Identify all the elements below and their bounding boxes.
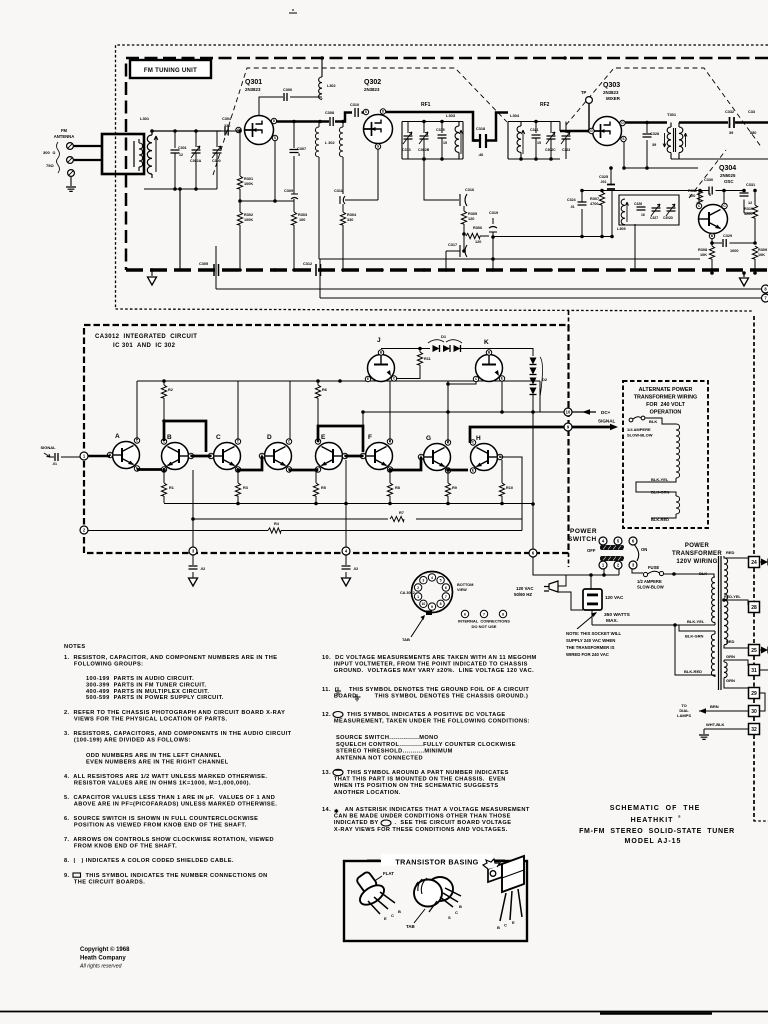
wire thick B base to C base	[191, 455, 211, 458]
antenna terminal screw 2	[67, 157, 74, 164]
transistor K	[476, 355, 503, 382]
svg-text:All rights reserved: All rights reserved	[79, 964, 123, 970]
svg-text:LAMPS: LAMPS	[677, 713, 691, 718]
svg-text:R305: R305	[468, 212, 477, 216]
junction dots q304 bottom	[710, 271, 714, 275]
svg-text:C331: C331	[746, 183, 755, 187]
svg-text:C: C	[455, 910, 458, 915]
svg-text:RESISTOR VALUES ARE IN OHMS 1K: RESISTOR VALUES ARE IN OHMS 1K=1000, M=1…	[64, 780, 251, 786]
svg-text:.001: .001	[600, 180, 607, 184]
CA3012 dashed box	[84, 325, 569, 553]
alternate wiring top	[645, 418, 676, 424]
svg-text:3. RESISTORS, CAPACITORS, AND: 3. RESISTORS, CAPACITORS, AND COMPONENTS…	[64, 731, 292, 737]
svg-text:R311: R311	[688, 189, 697, 193]
L301 arrow	[154, 136, 158, 172]
svg-text:F: F	[368, 434, 372, 441]
resistor R8	[389, 470, 391, 483]
svg-text:2N3823: 2N3823	[603, 90, 619, 95]
terminal 24	[749, 557, 760, 568]
svg-text:SIGNAL: SIGNAL	[40, 445, 56, 450]
junction dots antenna tank	[150, 129, 154, 133]
Q304 pin C2	[722, 203, 727, 208]
wire plug to circuit	[558, 575, 592, 625]
svg-text:R9: R9	[452, 486, 457, 490]
svg-text:C313: C313	[402, 148, 411, 152]
resistor R3	[237, 470, 239, 483]
svg-text:POSITION AS VIEWED FROM KNOB E: POSITION AS VIEWED FROM KNOB END OF THE …	[64, 822, 247, 828]
svg-text:28: 28	[751, 605, 757, 611]
power section left dashed edge	[568, 311, 570, 567]
node 7 right edge	[762, 294, 768, 302]
svg-text:R2: R2	[168, 388, 173, 392]
switch wafer upper	[600, 545, 624, 550]
wire antenna to transformer	[74, 146, 102, 160]
svg-text:C316: C316	[465, 188, 474, 192]
transistor B base pin	[188, 453, 193, 458]
wire T301 bottom rail	[671, 158, 768, 160]
svg-text:THE CIRCUIT BOARDS.: THE CIRCUIT BOARDS.	[64, 879, 145, 885]
svg-text:120: 120	[689, 194, 695, 198]
wire C325 top	[610, 168, 612, 179]
svg-text:SLOW-BLOW: SLOW-BLOW	[637, 585, 664, 590]
svg-text:R309: R309	[758, 248, 767, 252]
svg-text:C302A: C302A	[190, 159, 202, 163]
inductor L305	[621, 199, 625, 225]
resistor R1	[163, 470, 165, 483]
svg-text:B: B	[497, 925, 500, 930]
svg-text:WIRED FOR 240 VAC: WIRED FOR 240 VAC	[566, 652, 609, 657]
wire J emitter to bus	[340, 380, 366, 382]
svg-text:L301: L301	[140, 116, 150, 121]
svg-text:C330: C330	[704, 178, 713, 182]
svg-text:R301: R301	[244, 177, 253, 181]
svg-text:B: B	[398, 909, 401, 914]
node 8 right edge	[762, 285, 768, 293]
transistor C	[214, 443, 241, 470]
svg-text:SWITCH: SWITCH	[568, 536, 597, 543]
svg-text:SOURCE SWITCH...............MO: SOURCE SWITCH...............MONO	[336, 735, 439, 741]
svg-text:ABOVE ARE IN PF=(PICOFARADS) U: ABOVE ARE IN PF=(PICOFARADS) UNLESS MARK…	[64, 801, 277, 807]
capacitor C308 on drain bus	[330, 117, 333, 126]
svg-text:BOARD, THIS SYMBOL DENO: BOARD, THIS SYMBOL DENOTES THE CHASSIS G…	[322, 694, 528, 700]
wire Q301 drain bus	[276, 113, 352, 122]
svg-text:.02: .02	[353, 567, 358, 571]
switch contact 3	[629, 561, 637, 569]
svg-text:POWER: POWER	[570, 528, 597, 535]
resistor R4	[268, 528, 281, 533]
alternate tail	[651, 514, 676, 518]
fuse symbol	[643, 572, 647, 576]
transistor G emitter pin	[445, 468, 450, 473]
svg-text:R310: R310	[744, 207, 753, 211]
transistor C collector pin	[235, 439, 240, 444]
svg-text:5. CAPACITOR VALUES LESS THAN: 5. CAPACITOR VALUES LESS THAN 1 ARE IN µ…	[64, 795, 275, 801]
transistor F base pin	[360, 453, 365, 458]
wire secondary red	[724, 556, 748, 558]
svg-text:GRN: GRN	[726, 654, 735, 659]
capacitor C317	[460, 245, 467, 257]
transistor D emitter pin	[286, 467, 291, 472]
chassis ground antenna	[66, 187, 76, 191]
plug symbol	[544, 581, 558, 592]
svg-text:C: C	[504, 923, 507, 928]
svg-text:B: B	[167, 434, 172, 441]
svg-text:TRANSISTOR BASING: TRANSISTOR BASING	[395, 858, 478, 867]
dial lamps arrow	[699, 708, 706, 714]
capacitor C300 trimmer	[216, 131, 218, 147]
svg-text:ANTENNA: ANTENNA	[54, 134, 74, 139]
svg-text:C326: C326	[634, 202, 642, 206]
svg-text:L303: L303	[446, 113, 456, 118]
svg-text:C321: C321	[530, 128, 539, 132]
transistor E collector pin	[315, 439, 320, 444]
Q303 pin D	[620, 120, 625, 125]
RF1 tank box rails	[402, 122, 463, 160]
node 4	[342, 547, 350, 555]
svg-text:Ω: Ω	[53, 151, 56, 155]
inductor L302 lower pair	[315, 122, 319, 260]
svg-text:WHT-BLK: WHT-BLK	[706, 722, 725, 727]
terminal 28	[749, 602, 760, 613]
svg-text:15: 15	[537, 141, 541, 145]
svg-text:8: 8	[502, 613, 504, 617]
transistor Q301	[245, 116, 274, 145]
alternate step	[636, 478, 676, 496]
Q302 pin D	[380, 109, 385, 114]
resistor R7	[390, 516, 404, 521]
svg-text:TRANSFORMER WIRING: TRANSFORMER WIRING	[634, 395, 698, 401]
capacitor C332	[730, 117, 735, 128]
capacitor C331	[743, 191, 745, 193]
capacitor C327 trimmer	[652, 208, 661, 211]
svg-text:RED-YEL: RED-YEL	[724, 595, 741, 599]
alternate coil upper	[676, 424, 680, 478]
svg-text:EVEN NUMBERS ARE IN THE RIGHT: EVEN NUMBERS ARE IN THE RIGHT CHANNEL	[86, 759, 229, 765]
svg-text:POWER: POWER	[685, 543, 710, 549]
transistor E base pin	[342, 453, 347, 458]
svg-text:120V WIRING: 120V WIRING	[676, 559, 717, 565]
resistor R10	[501, 460, 503, 483]
svg-text:T301: T301	[667, 112, 677, 117]
svg-text:C328: C328	[650, 132, 659, 136]
svg-text:C329: C329	[723, 234, 732, 238]
svg-text:BRN: BRN	[710, 704, 719, 709]
transistor G	[424, 444, 451, 471]
resistor R305	[463, 206, 465, 211]
svg-text:BLK-GRN: BLK-GRN	[651, 490, 670, 495]
transistor D	[265, 443, 292, 470]
svg-text:MODEL AJ-15: MODEL AJ-15	[625, 838, 682, 845]
svg-text:24: 24	[751, 560, 757, 566]
antenna terminal screw 1	[67, 143, 74, 150]
svg-text:S: S	[274, 136, 276, 140]
capacitor C311	[340, 196, 345, 204]
svg-text:8: 8	[440, 602, 442, 606]
svg-text:5: 5	[440, 579, 442, 583]
wire term29 to 30 loop	[760, 693, 766, 711]
transistor C emitter pin	[235, 467, 240, 472]
wire term31 right	[760, 669, 768, 671]
svg-text:C302C: C302C	[545, 148, 556, 152]
svg-text:DO NOT USE: DO NOT USE	[472, 624, 497, 629]
outer boundary dashed of tuner vs power supply sections	[116, 45, 768, 821]
svg-text:MIXER: MIXER	[606, 96, 621, 101]
svg-text:THE TRANSFORMER IS: THE TRANSFORMER IS	[566, 645, 615, 650]
svg-text:6: 6	[709, 193, 711, 197]
svg-text:30: 30	[751, 709, 757, 715]
svg-text:S: S	[448, 915, 451, 920]
resistor R301	[221, 130, 238, 132]
svg-text:31: 31	[751, 668, 757, 674]
capacitor C302B trimmer	[423, 122, 425, 134]
svg-text:6: 6	[464, 613, 466, 617]
wire grn tap	[724, 660, 748, 666]
svg-text:R1: R1	[169, 486, 174, 490]
ground triangle below bus left	[150, 268, 154, 272]
wire blk-grn jumper	[675, 625, 715, 677]
svg-text:DC+: DC+	[601, 410, 611, 415]
svg-text:7. ARROWS ON CONTROLS SHOW CL: 7. ARROWS ON CONTROLS SHOW CLOCKWISE ROT…	[64, 837, 274, 843]
svg-text:BLK: BLK	[649, 419, 657, 424]
svg-text:R307: R307	[590, 197, 599, 201]
resistor R310	[754, 191, 756, 206]
chassis ground whtblk	[699, 735, 709, 739]
wire H base feedback	[500, 457, 522, 531]
inductor L304	[517, 122, 521, 160]
wire thick F emitter to G base	[390, 457, 421, 470]
capacitor C306 line	[259, 97, 283, 115]
transformer core	[719, 556, 722, 690]
svg-text:14. AN ASTERISK INDICATE: 14. AN ASTERISK INDICATES THAT A VOLTAGE…	[322, 807, 530, 813]
CA3012 socket pins	[428, 574, 435, 581]
svg-text:INDICATED BY . SEE THE: INDICATED BY . SEE THE CIRCUIT BOARD VOL…	[322, 820, 511, 826]
svg-text:MAX.: MAX.	[606, 618, 618, 624]
svg-text:100-199 PARTS IN AUDIO CIRCUI: 100-199 PARTS IN AUDIO CIRCUIT.	[86, 676, 194, 682]
resistor R309	[752, 246, 757, 259]
svg-text:C310: C310	[350, 103, 359, 107]
transistor F emitter pin	[387, 467, 392, 472]
svg-text:Q301: Q301	[245, 79, 262, 86]
svg-text:E: E	[472, 469, 474, 473]
resistor R11	[419, 349, 421, 353]
svg-text:R304: R304	[347, 213, 357, 217]
svg-text:1. RESISTOR, CAPACITOR, AND C: 1. RESISTOR, CAPACITOR, AND COMPONENT NU…	[64, 655, 277, 661]
Q301 source pin	[272, 135, 277, 140]
alternate coil lower	[676, 496, 680, 514]
svg-text:ODD NUMBERS ARE IN THE LEFT CH: ODD NUMBERS ARE IN THE LEFT CHANNEL	[86, 753, 222, 759]
svg-text:GRN: GRN	[726, 678, 735, 683]
transistor D collector pin	[286, 439, 291, 444]
wire R4 rail	[88, 530, 522, 532]
transistor F collector pin	[387, 439, 392, 444]
transformer primary upper coil	[712, 577, 715, 623]
svg-text:C305: C305	[199, 262, 208, 266]
svg-text:12: 12	[748, 201, 752, 205]
svg-text:ANOTHER LOCATION.: ANOTHER LOCATION.	[322, 790, 401, 796]
svg-text:E: E	[384, 916, 387, 921]
switch contact 1	[599, 561, 607, 569]
transistor A base pin	[107, 452, 112, 457]
svg-text:C302D: C302D	[663, 216, 674, 220]
svg-text:E: E	[501, 377, 503, 381]
svg-text:100K: 100K	[244, 218, 253, 222]
svg-text:RF1: RF1	[421, 102, 431, 108]
svg-text:32: 32	[751, 727, 757, 733]
K collector pin	[473, 376, 478, 381]
junction C319 AGC	[491, 257, 495, 261]
svg-text:C332: C332	[725, 110, 734, 114]
alternate fuse	[629, 418, 633, 422]
svg-text:R5: R5	[321, 486, 326, 490]
svg-text:FLAT: FLAT	[383, 871, 394, 876]
note arrow	[577, 613, 596, 629]
svg-text:X-RAY VIEWS FOR THESE CONDITIO: X-RAY VIEWS FOR THESE CONDITIONS AND VOL…	[322, 827, 508, 833]
Q303 pin G	[589, 128, 594, 133]
socket tab	[426, 611, 432, 616]
svg-text:OSC: OSC	[724, 179, 734, 184]
svg-text:4. ALL RESISTORS ARE 1/2 WATT: 4. ALL RESISTORS ARE 1/2 WATT UNLESS MAR…	[64, 774, 267, 780]
svg-text:SQUELCH CONTROL............FUL: SQUELCH CONTROL............FULLY COUNTER…	[336, 742, 516, 748]
svg-text:R308: R308	[698, 248, 707, 252]
svg-text:9: 9	[431, 605, 433, 609]
svg-text:500-599 PARTS IN POWER SUPPLY: 500-599 PARTS IN POWER SUPPLY CIRCUIT.	[86, 695, 224, 701]
transformer T301	[667, 123, 671, 160]
svg-text:OFF: OFF	[587, 548, 596, 553]
svg-text:4700: 4700	[590, 202, 598, 206]
svg-text:CA 3012: CA 3012	[400, 591, 415, 595]
TP test point	[586, 97, 593, 104]
svg-text:C317: C317	[448, 243, 457, 247]
shield outline dashed diagonal left	[213, 68, 507, 175]
diode at 25	[760, 649, 762, 651]
svg-text:TAB: TAB	[406, 924, 415, 929]
svg-text:2: 2	[417, 586, 419, 590]
Q302 pin G	[375, 144, 380, 149]
svg-text:330: 330	[347, 218, 353, 222]
capacitor C324	[578, 202, 587, 205]
capacitor C315	[441, 122, 443, 134]
internal pins 6 7 8	[461, 610, 468, 617]
wire red tap2	[724, 645, 748, 648]
diode D2 set	[489, 349, 533, 357]
svg-text:®: ®	[678, 815, 681, 819]
terminal 25	[749, 645, 760, 656]
svg-text:R8: R8	[395, 486, 400, 490]
svg-text:D: D	[267, 434, 272, 441]
svg-text:CA3012 INTEGRATED CIRCUIT: CA3012 INTEGRATED CIRCUIT	[95, 334, 197, 340]
svg-text:2. REFER TO THE CHASSIS PHOTO: 2. REFER TO THE CHASSIS PHOTOGRAPH AND C…	[64, 710, 285, 716]
terminal 29	[749, 688, 760, 699]
transistor A emitter pin	[134, 466, 139, 471]
svg-text:✱: ✱	[334, 808, 339, 815]
svg-text:4: 4	[431, 576, 433, 580]
svg-text:8. | ) INDICATES A COLOR CO: 8. | ) INDICATES A COLOR CODED SHIELDED …	[64, 858, 234, 864]
resistor R2	[162, 379, 166, 383]
switch blade	[635, 545, 639, 561]
wire thick H collector to signal out	[470, 427, 564, 443]
wire emitter rail	[164, 503, 533, 505]
basing transistor 1 body	[356, 871, 378, 894]
oscillator tank box	[619, 195, 679, 225]
svg-text:C312: C312	[303, 262, 312, 266]
terminal 30	[749, 706, 760, 717]
svg-text:5: 5	[298, 153, 300, 157]
transistor basing box	[344, 861, 527, 941]
svg-text:10: 10	[566, 410, 571, 415]
capacitor C325	[607, 185, 615, 190]
svg-text:G: G	[426, 435, 431, 442]
Q303 pin S	[621, 136, 626, 141]
svg-text:FM TUNING UNIT: FM TUNING UNIT	[144, 68, 197, 74]
transformer secondary winding 2b	[723, 683, 725, 685]
wire IC top bus	[137, 381, 540, 443]
bottom rule	[0, 1011, 768, 1013]
svg-text:THAT THIS PART IS MOUNTED ON T: THAT THIS PART IS MOUNTED ON THE CHASSIS…	[322, 777, 506, 783]
wire thick E base to F base	[345, 455, 363, 458]
wire T301 secondary out	[679, 121, 768, 124]
capacitor C302C trimmer	[550, 122, 552, 134]
transformer secondary winding 2a	[724, 662, 727, 678]
antenna terminal screw 3	[68, 170, 75, 177]
svg-text:.01: .01	[570, 205, 575, 209]
node 9	[564, 423, 572, 431]
svg-text:R302: R302	[244, 213, 253, 217]
transistor H emitter pin	[470, 468, 475, 473]
capacitor C307	[293, 122, 295, 149]
transistor E	[316, 443, 343, 470]
capacitor C323 trimmer	[565, 122, 567, 134]
wire node6 to switch	[533, 557, 643, 575]
svg-text:7: 7	[483, 613, 485, 617]
svg-text:350 WATTS: 350 WATTS	[604, 612, 631, 618]
FM TUNING UNIT label box	[130, 60, 211, 78]
diode D1 set	[381, 348, 430, 350]
antenna ground wire	[70, 177, 72, 186]
svg-text:10. DC VOLTAGE MEASUREMENTS A: 10. DC VOLTAGE MEASUREMENTS ARE TAKEN WI…	[322, 655, 537, 661]
svg-text:D2: D2	[542, 377, 548, 382]
svg-text:FOLLOWING GROUPS:: FOLLOWING GROUPS:	[64, 661, 143, 667]
svg-text:R10: R10	[506, 486, 513, 490]
wire red-yel tap	[724, 600, 748, 605]
capacitor C328	[646, 123, 648, 134]
svg-text:RF2: RF2	[540, 102, 550, 108]
svg-text:300: 300	[43, 150, 50, 155]
svg-text:INTERNAL CONNECTIONS: INTERNAL CONNECTIONS	[458, 619, 510, 624]
capacitor C301	[174, 131, 176, 148]
wire mixer lower rails	[612, 168, 698, 191]
svg-text:WHEN ITS POSITION ON THE SCHEM: WHEN ITS POSITION ON THE SCHEMATIC SUGGE…	[322, 783, 499, 789]
alternate power dashed box	[623, 381, 708, 528]
svg-text:ALTERNATE POWER: ALTERNATE POWER	[639, 387, 693, 393]
switch contact 6	[629, 537, 637, 545]
transistor J	[368, 355, 395, 382]
antenna tank bottom rail wire	[144, 189, 217, 270]
svg-text:Q303: Q303	[603, 82, 620, 89]
transistor F	[366, 443, 393, 470]
wire osc cell right	[611, 191, 613, 237]
wire Q304 top	[699, 191, 724, 204]
svg-text:R3: R3	[243, 486, 248, 490]
svg-text:L 302: L 302	[325, 141, 335, 145]
transistor Q303	[593, 117, 622, 146]
svg-text:CAN BE MADE UNDER CONDITIONS O: CAN BE MADE UNDER CONDITIONS OTHER THAN …	[322, 814, 511, 820]
svg-text:2N5025: 2N5025	[720, 173, 736, 178]
junctions RF1	[422, 120, 426, 124]
wire C316 branch	[424, 159, 459, 200]
wire thick A emitter to B emitter	[137, 468, 162, 471]
transistor B	[162, 443, 189, 470]
svg-text:29: 29	[751, 691, 757, 697]
